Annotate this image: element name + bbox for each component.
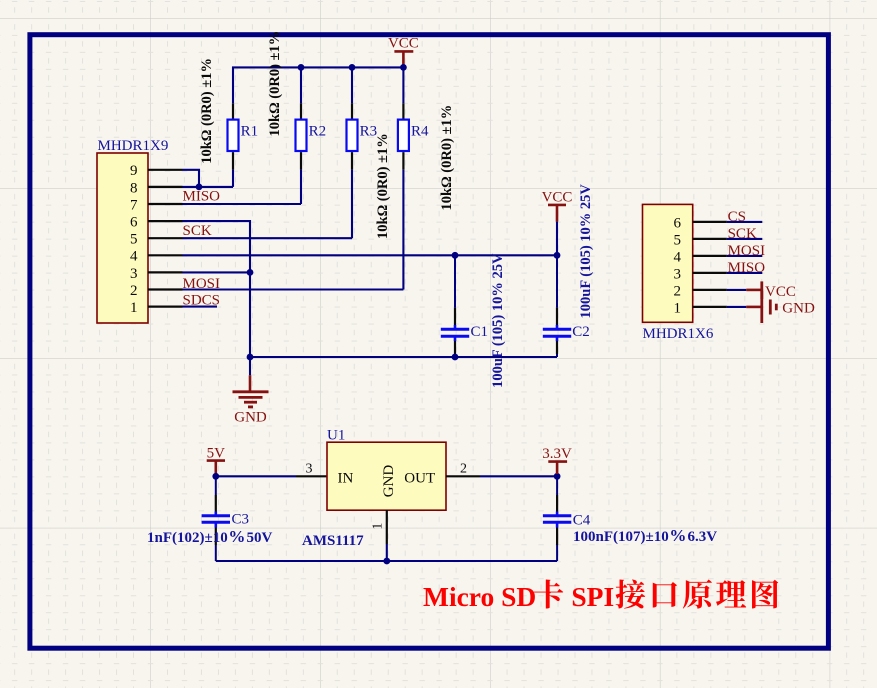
pin 2 (OUT) — [446, 462, 480, 477]
svg-text:OUT: OUT — [404, 470, 435, 486]
node junction pin3 — [247, 269, 254, 276]
svg-text:IN: IN — [338, 470, 354, 486]
value label R1 — [199, 58, 215, 164]
power 3.3V — [542, 446, 572, 474]
svg-text:5V: 5V — [207, 445, 226, 461]
wire pin7 to R2 — [183, 203, 302, 205]
value label C4 — [573, 526, 717, 545]
resistor R2 — [296, 103, 327, 169]
power 5V — [207, 445, 226, 474]
svg-text:R2: R2 — [309, 123, 327, 139]
wire R4 top stem — [402, 67, 404, 103]
svg-text:3.3V: 3.3V — [542, 446, 572, 462]
net label SCK (P2) — [728, 226, 757, 242]
value label R4 — [439, 105, 455, 211]
wire VCC to node — [556, 222, 558, 256]
svg-text:1: 1 — [370, 523, 385, 530]
wire pin9 to MISO node — [183, 170, 200, 187]
svg-text:10kΩ (0R0) ±1%: 10kΩ (0R0) ±1% — [267, 31, 283, 137]
svg-text:%: % — [228, 527, 245, 546]
wire 5V to IN — [216, 475, 296, 477]
net label MISO (P2) — [728, 260, 766, 276]
svg-text:C1: C1 — [471, 324, 489, 340]
svg-text:4: 4 — [130, 249, 138, 265]
svg-text:GND: GND — [782, 300, 815, 316]
node junction R4/VCC top — [400, 64, 407, 71]
wire pin6 SCK down — [183, 221, 251, 357]
svg-text:2: 2 — [130, 283, 138, 299]
svg-text:R1: R1 — [241, 123, 259, 139]
svg-text:C4: C4 — [573, 513, 591, 529]
power VCC (P2 pin2) — [762, 281, 796, 300]
wire VCC bus — [233, 67, 403, 103]
svg-text:SCK: SCK — [183, 223, 212, 239]
svg-text:C2: C2 — [572, 324, 590, 340]
svg-text:2: 2 — [674, 283, 682, 299]
svg-text:MOSI: MOSI — [728, 243, 766, 259]
power VCC (top) — [388, 36, 419, 67]
wire pin1 GND stub — [727, 306, 762, 308]
pin 1 (GND) — [370, 510, 387, 544]
net label MOSI — [183, 276, 221, 292]
node junction R2 top — [298, 64, 305, 71]
wire MOSI stub — [727, 255, 762, 257]
wire pin3 MOSI — [183, 271, 251, 273]
wire pin5 to R3 — [183, 237, 353, 239]
resistor R3 — [347, 103, 378, 169]
svg-text:SPI: SPI — [571, 581, 614, 612]
svg-text:Micro SD: Micro SD — [423, 581, 536, 612]
connector P1 MHDR1X9 — [97, 138, 183, 323]
svg-text:1: 1 — [674, 300, 682, 316]
svg-text:6.3V: 6.3V — [688, 529, 718, 545]
wire R3 bottom — [351, 170, 353, 239]
net label SDCS — [183, 292, 221, 308]
svg-text:%: % — [669, 526, 686, 545]
wire pin2 VCC stub — [727, 289, 762, 291]
wire bottom rail — [216, 560, 557, 562]
node junction C2 top — [554, 252, 561, 259]
svg-text:GND: GND — [381, 465, 397, 498]
node junction C1 top — [452, 252, 459, 259]
wire R4 bottom — [402, 170, 404, 290]
value label C3 — [147, 527, 273, 546]
capacitor C1 — [441, 255, 488, 357]
value label R2 — [267, 31, 283, 137]
title Micro SD card SPI schematic — [423, 579, 778, 611]
resistor R4 — [398, 103, 429, 169]
svg-text:VCC: VCC — [765, 284, 796, 300]
wire CS stub — [727, 221, 762, 223]
svg-text:6: 6 — [130, 215, 138, 231]
svg-text:VCC: VCC — [388, 36, 419, 52]
svg-text:U1: U1 — [327, 427, 345, 443]
net label CS — [728, 209, 746, 225]
net label MOSI (P2) — [728, 243, 766, 259]
svg-text:CS: CS — [728, 209, 746, 225]
svg-text:AMS1117: AMS1117 — [302, 533, 364, 549]
net label MISO — [183, 189, 221, 205]
svg-text:VCC: VCC — [542, 190, 573, 206]
svg-text:4: 4 — [674, 249, 682, 265]
wire R2 top stem — [300, 67, 302, 103]
svg-text:5: 5 — [130, 232, 138, 248]
resistor R1 — [228, 103, 259, 169]
node junction U1 GND — [383, 558, 390, 565]
net label SCK — [183, 223, 212, 239]
svg-text:MISO: MISO — [183, 189, 221, 205]
svg-text:7: 7 — [130, 197, 138, 213]
value label C1 — [490, 253, 506, 388]
svg-text:5: 5 — [674, 232, 682, 248]
node junction 3.3V/C4 — [554, 473, 561, 480]
svg-text:10kΩ (0R0) ±1%: 10kΩ (0R0) ±1% — [375, 133, 391, 239]
node MISO junction — [196, 184, 203, 191]
wire MISO stub — [727, 272, 762, 274]
svg-text:GND: GND — [234, 410, 267, 426]
wire ground rail — [250, 356, 557, 358]
node junction 5V/C3 — [212, 473, 219, 480]
svg-text:3: 3 — [674, 266, 682, 282]
wire R3 top stem — [351, 67, 353, 103]
svg-text:3: 3 — [306, 462, 313, 477]
svg-text:2: 2 — [460, 462, 467, 477]
svg-text:100uF (105) 10% 25V: 100uF (105) 10% 25V — [490, 253, 506, 388]
wire pin2 to R4 — [183, 288, 404, 290]
connector P2 MHDR1X6 — [643, 204, 727, 341]
power VCC (C2) — [542, 190, 573, 222]
node junction R3 top — [349, 64, 356, 71]
value label C2 — [578, 184, 594, 319]
svg-text:MISO: MISO — [728, 260, 766, 276]
svg-text:100nF(107)±10: 100nF(107)±10 — [573, 529, 669, 545]
ground GND (center) — [233, 357, 269, 426]
svg-text:50V: 50V — [247, 530, 273, 546]
node junction C1 bottom — [452, 354, 459, 361]
wire pin4 to caps — [183, 254, 558, 256]
pin 3 (IN) — [296, 462, 327, 477]
wire R2 bottom — [300, 170, 302, 204]
capacitor C3 — [202, 476, 249, 561]
wire pin8 MISO — [183, 186, 234, 188]
svg-text:R4: R4 — [411, 123, 429, 139]
capacitor C2 — [543, 255, 590, 357]
svg-text:10kΩ (0R0) ±1%: 10kΩ (0R0) ±1% — [199, 58, 215, 164]
svg-text:C3: C3 — [232, 512, 250, 528]
svg-text:MHDR1X6: MHDR1X6 — [643, 326, 714, 342]
svg-text:MHDR1X9: MHDR1X9 — [98, 138, 169, 154]
svg-text:SCK: SCK — [728, 226, 757, 242]
svg-text:8: 8 — [130, 180, 138, 196]
capacitor C4 — [543, 476, 591, 561]
svg-text:10kΩ (0R0) ±1%: 10kΩ (0R0) ±1% — [439, 105, 455, 211]
svg-text:1nF(102)±10: 1nF(102)±10 — [147, 530, 228, 546]
svg-text:100uF (105) 10% 25V: 100uF (105) 10% 25V — [578, 184, 594, 319]
node junction SCK/GND — [247, 354, 254, 361]
svg-text:6: 6 — [674, 215, 682, 231]
wire U1 GND to rail — [386, 544, 388, 561]
wire OUT to 3.3V — [480, 475, 557, 477]
wire SCK stub — [727, 238, 762, 240]
svg-text:3: 3 — [130, 266, 138, 282]
svg-text:1: 1 — [130, 300, 138, 316]
wire R1 bottom — [232, 170, 234, 187]
wire pin1 stub — [183, 306, 218, 308]
svg-text:9: 9 — [130, 163, 138, 179]
value label R3 — [375, 133, 391, 239]
regulator U1 AMS1117 — [302, 427, 446, 549]
ground GND (P2 pin1) — [762, 291, 815, 323]
